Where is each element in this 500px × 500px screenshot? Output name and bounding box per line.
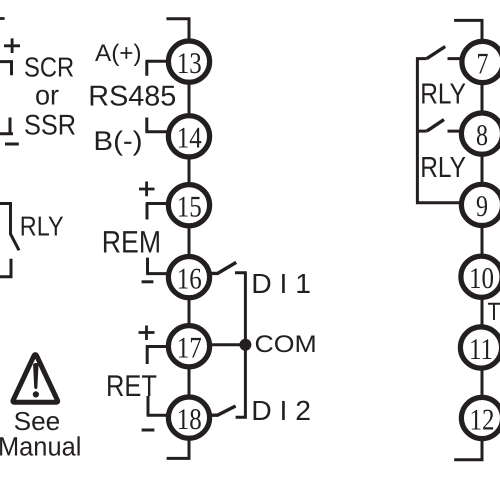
svg-text:9: 9 <box>476 190 488 223</box>
svg-text:or: or <box>35 80 59 111</box>
svg-text:D I 2: D I 2 <box>251 395 311 426</box>
svg-text:RET: RET <box>106 370 157 403</box>
svg-text:16: 16 <box>177 262 202 295</box>
svg-text:10: 10 <box>469 262 494 295</box>
svg-text:SCR: SCR <box>24 52 74 83</box>
svg-text:SSR: SSR <box>24 109 76 141</box>
svg-text:T: T <box>488 298 500 326</box>
svg-text:B(-): B(-) <box>93 126 142 156</box>
svg-text:RLY: RLY <box>420 152 466 184</box>
svg-text:RLY: RLY <box>420 78 466 110</box>
svg-text:14: 14 <box>177 122 202 155</box>
svg-text:RLY: RLY <box>20 210 64 241</box>
svg-text:11: 11 <box>469 333 493 366</box>
svg-text:REM: REM <box>102 224 161 259</box>
svg-text:7: 7 <box>477 47 489 80</box>
svg-text:RS485: RS485 <box>88 81 176 113</box>
svg-text:17: 17 <box>177 332 202 365</box>
svg-text:D I 1: D I 1 <box>251 268 311 299</box>
svg-text:A(+): A(+) <box>95 40 142 67</box>
svg-text:13: 13 <box>177 47 202 80</box>
svg-text:8: 8 <box>476 119 488 152</box>
svg-text:COM: COM <box>255 331 317 358</box>
svg-text:Manual: Manual <box>0 432 81 462</box>
svg-text:12: 12 <box>470 403 495 436</box>
svg-text:15: 15 <box>177 191 202 224</box>
svg-text:18: 18 <box>177 403 202 436</box>
